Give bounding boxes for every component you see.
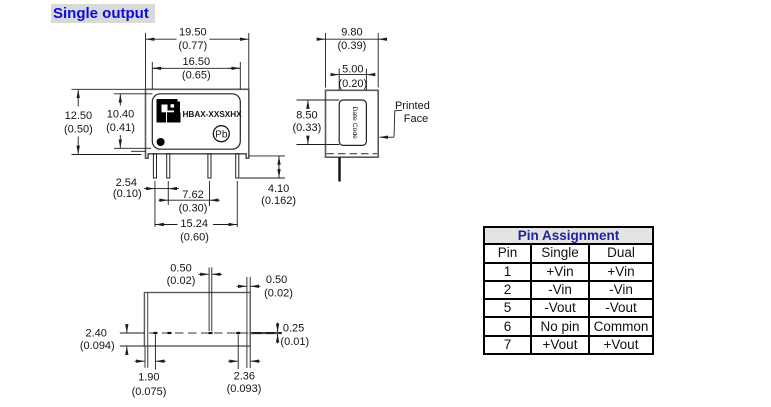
- dim 16.50 (0.65) body width: [152, 62, 240, 89]
- pin 1 index dot: [157, 138, 165, 146]
- svg-text:(0.20): (0.20): [338, 78, 367, 90]
- dim 0.50 (0.02) pin width (center): [199, 267, 223, 331]
- section title Single output: [51, 4, 155, 23]
- svg-text:(0.41): (0.41): [106, 122, 135, 134]
- svg-text:9.80: 9.80: [341, 26, 362, 38]
- svg-text:19.50: 19.50: [179, 26, 207, 38]
- dim 2.54 (0.10) pin pitch: [144, 181, 179, 205]
- svg-text:5.00: 5.00: [342, 63, 363, 75]
- svg-text:(0.39): (0.39): [338, 40, 367, 52]
- svg-text:(0.094): (0.094): [80, 340, 115, 352]
- svg-text:7.62: 7.62: [182, 189, 203, 201]
- date code box: [339, 100, 366, 145]
- dim 15.24 (0.60): [155, 181, 237, 227]
- svg-text:10.40: 10.40: [107, 109, 135, 121]
- pin mark 7: [236, 332, 240, 334]
- dim 5.00 (0.20): [331, 69, 376, 91]
- svg-text:(0.33): (0.33): [293, 122, 322, 134]
- dim 19.50 (0.77) overall width: [146, 33, 249, 89]
- front view case outline: [146, 89, 249, 158]
- dim 4.10 (0.162) pin length: [240, 156, 286, 178]
- svg-text:(0.162): (0.162): [261, 195, 296, 207]
- svg-text:(0.77): (0.77): [178, 40, 207, 52]
- svg-text:2.36: 2.36: [234, 370, 255, 382]
- svg-text:(0.093): (0.093): [227, 383, 262, 395]
- dim 0.50 (0.02) wall (right): [237, 277, 261, 293]
- dim 8.50 (0.33): [297, 100, 340, 145]
- side view pin: [338, 157, 340, 181]
- svg-text:8.50: 8.50: [296, 109, 317, 121]
- svg-text:(0.02): (0.02): [167, 275, 196, 287]
- svg-text:(0.65): (0.65): [182, 69, 211, 81]
- svg-text:Pb: Pb: [215, 130, 228, 141]
- svg-text:16.50: 16.50: [183, 56, 211, 68]
- logo mark: [157, 99, 181, 123]
- svg-text:(0.60): (0.60): [180, 232, 209, 244]
- pin mark 5: [209, 332, 213, 334]
- svg-text:2.54: 2.54: [116, 177, 137, 189]
- pin assignment table: [483, 226, 654, 355]
- svg-text:(0.075): (0.075): [132, 386, 167, 398]
- side view case outline: [326, 90, 379, 157]
- svg-text:Face: Face: [404, 113, 428, 125]
- svg-text:0.50: 0.50: [266, 274, 287, 286]
- dim 12.50 (0.50) overall height: [72, 89, 146, 154]
- bottom view right wall line: [246, 293, 248, 347]
- dim 7.62 (0.30): [159, 181, 221, 206]
- bottom view left wall line: [147, 293, 149, 347]
- dim 1.90 (0.075): [135, 335, 166, 370]
- svg-text:HBAX-XXSXHX: HBAX-XXSXHX: [183, 110, 243, 119]
- Pb-free mark: [213, 126, 229, 142]
- pin 2: [167, 154, 170, 178]
- side view seating plane (hidden): [327, 153, 378, 155]
- svg-text:(0.02): (0.02): [264, 288, 293, 300]
- front view label face (rounded): [152, 94, 240, 149]
- svg-text:4.10: 4.10: [268, 183, 289, 195]
- svg-text:(0.01): (0.01): [280, 336, 309, 348]
- pin 7: [236, 154, 239, 178]
- svg-text:(0.30): (0.30): [179, 203, 208, 215]
- dim 0.25 (0.01) pin thickness: [250, 323, 282, 344]
- dim 9.80 (0.39) depth: [317, 33, 387, 88]
- pin 5: [208, 154, 211, 178]
- pin mark 2: [168, 332, 172, 334]
- svg-text:(0.10): (0.10): [113, 188, 142, 200]
- dim 10.40 (0.41) body height: [114, 94, 152, 149]
- svg-text:Date Code: Date Code: [351, 106, 358, 139]
- svg-text:1.90: 1.90: [138, 371, 159, 383]
- center line: [136, 332, 281, 334]
- dim 2.40 (0.094): [120, 325, 145, 355]
- dim 2.36 (0.093): [228, 335, 260, 370]
- pin 1: [153, 154, 156, 178]
- svg-text:0.25: 0.25: [283, 323, 304, 335]
- svg-text:12.50: 12.50: [65, 110, 93, 122]
- svg-text:(0.50): (0.50): [64, 123, 93, 135]
- svg-text:15.24: 15.24: [180, 218, 208, 230]
- bottom view outline: [144, 293, 250, 347]
- pin mark 1: [153, 332, 157, 334]
- printed face leader: [380, 110, 403, 137]
- svg-text:0.50: 0.50: [170, 262, 191, 274]
- svg-text:2.40: 2.40: [85, 328, 106, 340]
